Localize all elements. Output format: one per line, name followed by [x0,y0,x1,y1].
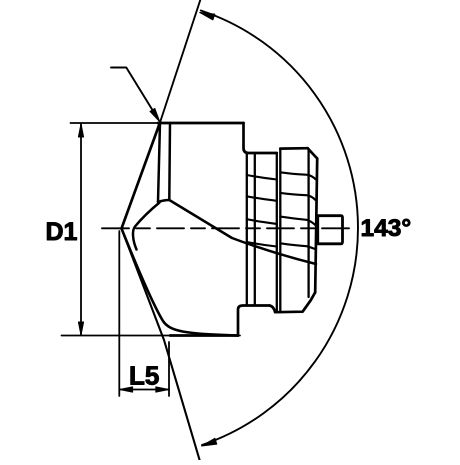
svg-text:D1: D1 [46,218,78,246]
bottom jog and lower shelf [270,292,316,312]
collar top chamfer [308,148,318,158]
centerline [102,227,351,229]
arc arrowhead top [200,12,215,20]
stud outline [318,216,343,244]
body bottom edge [170,334,238,337]
D1 dimension line [80,124,82,335]
gash diagonal across body [169,200,316,264]
upper cutting-edge extension line [160,0,200,123]
leader line [111,68,158,120]
D1 bottom extension line [62,335,241,337]
L5 arrowhead right [156,387,169,392]
collar right edge [315,159,317,293]
D1 top extension line [71,122,161,124]
collar thread line 4 [280,243,315,249]
thread line 4 [247,242,277,247]
arc arrowhead bottom [202,438,217,446]
thread line 3 [247,219,277,224]
gash hollow curve to tip [133,203,160,250]
collar chamfer boundary vertical [307,149,309,297]
bottom step up [238,306,270,336]
thread section left edge vertical [246,153,248,306]
L5 right extension line [168,342,170,396]
angle dimension arc 143deg [201,11,358,446]
collar thread line 1 [280,172,315,179]
margin line A (corner down) [158,123,160,203]
drill body top edge [158,122,244,125]
stud left edge [317,216,319,244]
L5 dimension line [119,389,169,391]
thread section right edge vertical [276,153,278,312]
collar left edge vertical [279,149,281,313]
L5 left extension line [118,231,120,396]
leader arrowhead [150,108,160,121]
thread chamfer vertical [254,153,256,306]
lower flank curve [122,229,239,336]
upper cutting edge (tip to corner) [122,123,161,229]
collar thread line 3 [280,217,315,225]
thread line 1 [247,175,277,180]
D1 arrowhead down [78,322,83,335]
lower cutting-edge extension line [122,229,200,461]
svg-text:L5: L5 [129,361,159,391]
D1 arrowhead up [78,124,83,137]
L5 arrowhead left [120,387,133,392]
collar top edge [280,147,307,150]
collar thread line 2 [280,193,315,200]
body right edge and top step [244,123,277,153]
thread line 2 [247,196,277,201]
gash hump crest [158,200,169,202]
svg-text:143°: 143° [361,215,412,242]
margin line B [168,123,171,200]
